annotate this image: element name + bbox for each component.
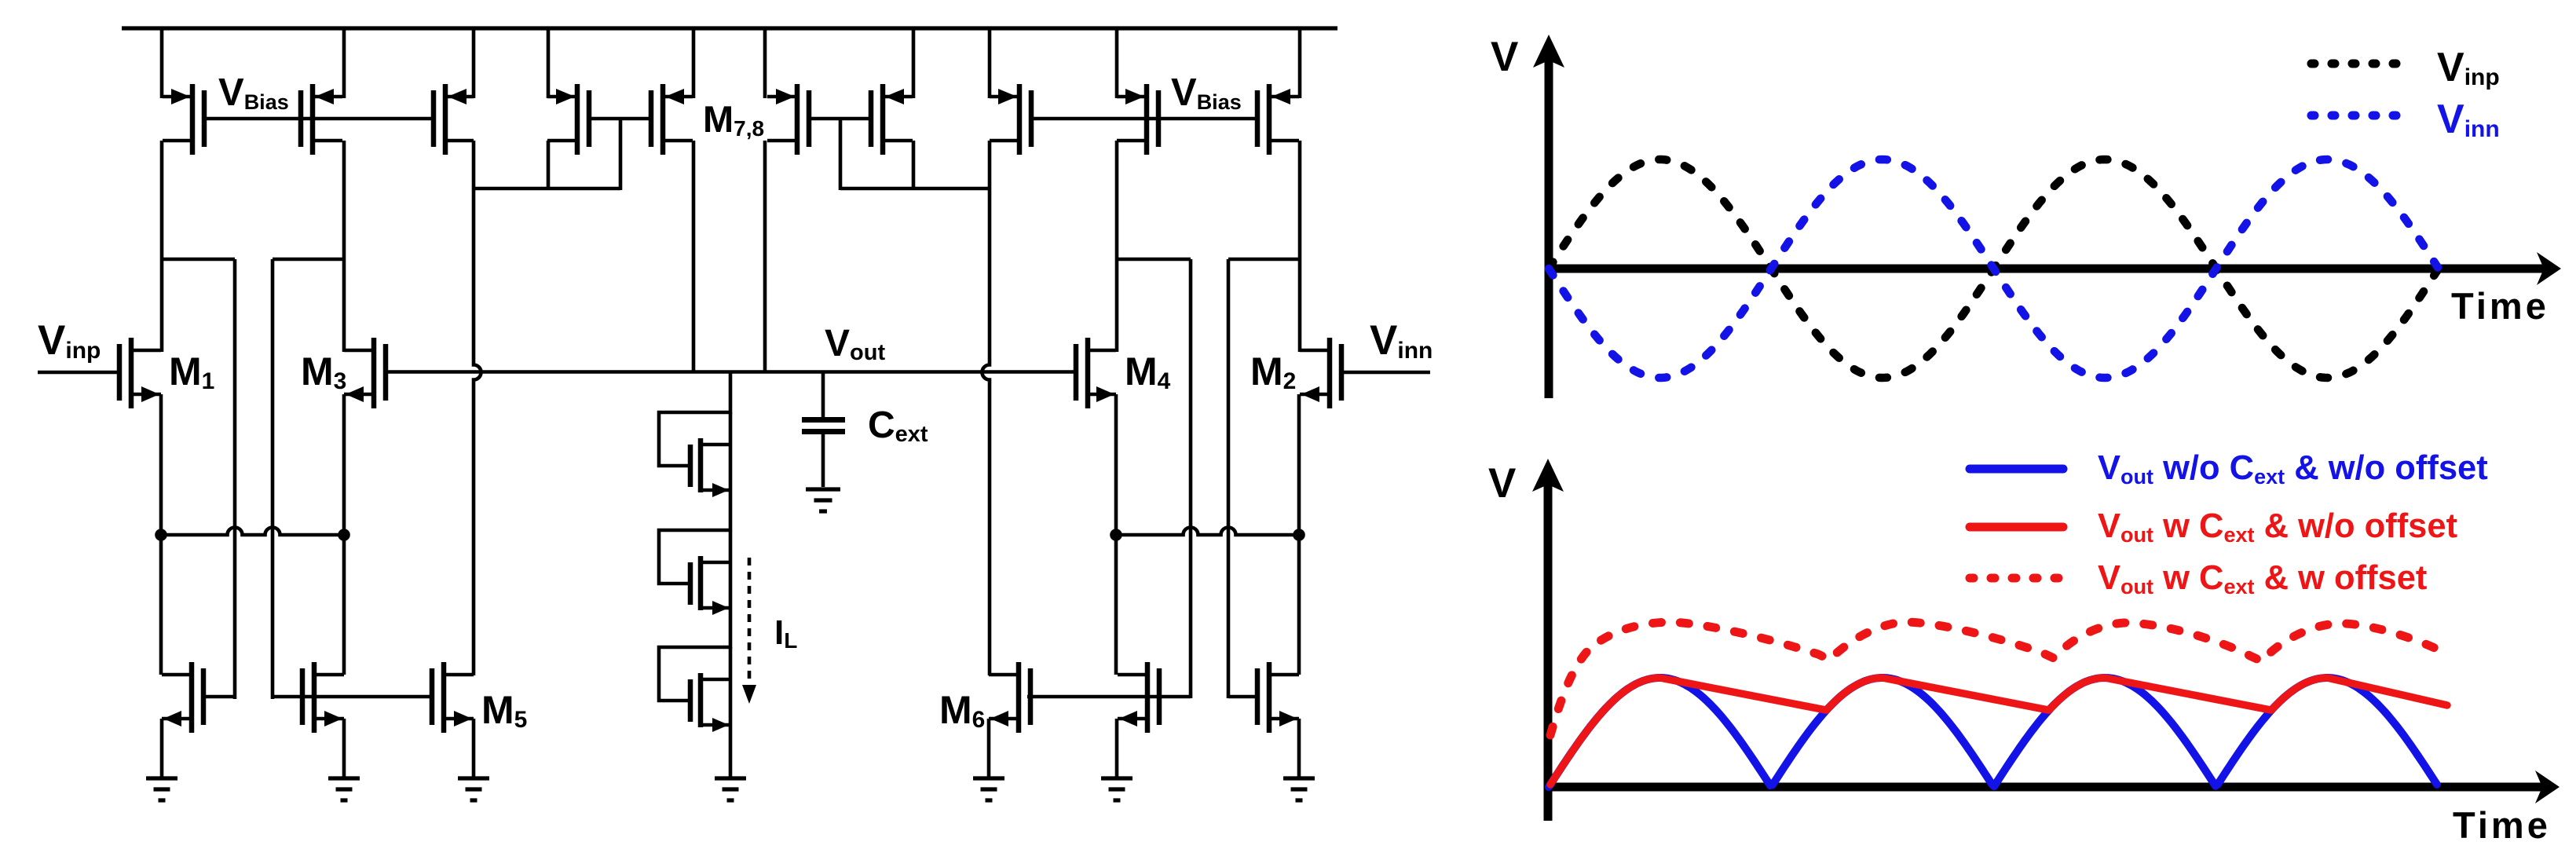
ground under M5 — [458, 778, 489, 800]
curve Vout w Cext red solid — [1550, 678, 2447, 785]
svg-text:Time: Time — [2453, 804, 2551, 846]
wire M3-source node down to B drain — [342, 535, 346, 675]
wire stack link 1 — [729, 412, 733, 531]
bottom plot V axis — [1532, 459, 1564, 821]
wire C gate riser — [1189, 259, 1193, 698]
transistor Q-bias-R1 (VBias pair left) — [1117, 84, 1158, 155]
transistor M8 mirror right — [871, 84, 913, 155]
wire M4 source down — [1114, 394, 1118, 535]
wire Q-bias-L1 source to rail — [160, 28, 164, 98]
legend sample red solid — [1970, 523, 2063, 532]
wire right source cross link — [1116, 528, 1299, 536]
wire M8 mirror-left drain to Vout — [763, 141, 767, 373]
wire M7 gate-drain tie — [619, 119, 623, 190]
wire M8 mirror-right source to rail — [912, 28, 916, 98]
wire Vout to Cext — [821, 371, 825, 417]
transistor D (NMOS under M2) — [1257, 662, 1299, 733]
ground under A — [146, 778, 177, 800]
wire M4-source node down to C drain — [1114, 535, 1118, 675]
wire node M1-drain branch to A gate — [162, 258, 235, 262]
wire M7 drain node bar — [474, 187, 620, 191]
wire M5 source to ground — [472, 719, 476, 778]
wire Q-bias-L2 drain to M3 drain — [342, 141, 346, 352]
transistor load stack Q-L1 — [659, 412, 730, 497]
transistor M1 — [119, 338, 161, 408]
wire M6-C gate line — [1027, 695, 1191, 699]
legend sample red dashed — [1970, 574, 2063, 583]
top plot Time axis — [1549, 252, 2561, 285]
wire Q-bias-R2 drain to M2 drain — [1298, 141, 1302, 352]
wire M8 gate-drain tie — [839, 119, 843, 190]
transistor load stack Q-L2 — [659, 530, 730, 615]
wire M8 mirror-right drain down — [912, 141, 916, 190]
transistor B (NMOS under M3) — [302, 662, 344, 733]
wire stack to ground — [729, 647, 733, 778]
legend sample Vinp dashes — [2311, 60, 2399, 68]
wire node M4-drain branch to C gate — [1117, 258, 1191, 262]
wire VBias gate line right — [1031, 117, 1257, 121]
wire B-M5 gate line — [273, 695, 432, 699]
wire M1-source node down to A drain — [159, 535, 163, 675]
transistor M7 mirror left — [547, 84, 589, 155]
node M2 source junction — [1293, 529, 1305, 541]
wire M7 mirror-right source to rail — [692, 28, 696, 98]
svg-text:V: V — [1488, 460, 1516, 507]
wire M3 source down — [342, 394, 346, 535]
capacitor Cext — [802, 420, 845, 488]
current IL dashed arrow — [742, 558, 756, 704]
wire D source to ground — [1297, 719, 1301, 778]
wire B source to ground — [342, 719, 346, 778]
wire Q-bias-L2 source to rail — [342, 28, 346, 98]
svg-text:Vout w/o Cext & w/o offset: Vout w/o Cext & w/o offset — [2098, 449, 2488, 489]
wire Vout to load stack — [729, 371, 733, 414]
wire Q-bias-R2 source to rail — [1298, 28, 1302, 98]
wire M2 source down — [1297, 394, 1301, 535]
transistor M7 cascode left — [434, 84, 474, 155]
curve Vinn dashed blue sine — [1549, 159, 2438, 378]
transistor M2 — [1300, 338, 1341, 408]
curve Vinp dashed black sine — [1549, 159, 2438, 378]
node M1 source junction — [155, 529, 167, 541]
wire M8-cascode drain down to M6 drain — [982, 141, 990, 675]
transistor Q-bias-R2 (VBias pair right) — [1257, 84, 1299, 155]
wire Vinn input lead — [1341, 371, 1430, 375]
wire M8 pair gate tie — [810, 117, 870, 121]
wire M7 mirror-left source to rail — [547, 28, 551, 98]
curve Vout w Cext w offset red dashed — [1550, 622, 2445, 735]
ground under M6 — [973, 778, 1004, 800]
top plot V axis — [1533, 35, 1564, 398]
wire M7-cascode drain down to M5 drain — [474, 141, 481, 675]
wire D gate riser — [1227, 259, 1231, 698]
transistor M3 — [344, 338, 386, 408]
wire node M3-drain branch to B gate — [273, 258, 344, 262]
wire M7 pair gate tie — [588, 117, 652, 121]
wire Q-bias-R1 source to rail — [1115, 28, 1119, 98]
transistor M8 mirror left — [767, 84, 809, 155]
wire M1 source down — [159, 394, 163, 535]
transistor M4 — [1076, 338, 1116, 408]
transistor C (NMOS under M4) — [1118, 662, 1159, 733]
wire Vout node line — [385, 370, 1077, 374]
wire M7 mirror-right drain to Vout — [692, 141, 696, 373]
transistor M7 mirror right — [651, 84, 693, 155]
wire Q-bias-R1 drain to M4 drain — [1115, 141, 1119, 352]
wire A source to ground — [160, 719, 164, 778]
wire Vinp input lead — [38, 371, 119, 375]
wire M8 mirror-left source to rail — [763, 28, 767, 98]
wire node M2-drain branch to D gate — [1228, 258, 1300, 262]
node M4 source junction — [1110, 529, 1122, 541]
transistor A (NMOS under M1) — [162, 662, 203, 733]
ground under B — [328, 778, 360, 800]
wire stack link 2 — [729, 530, 733, 649]
wire C source to ground — [1115, 719, 1119, 778]
transistor M6 — [989, 662, 1030, 733]
wire B gate riser — [271, 259, 275, 699]
transistor M5 — [432, 662, 474, 733]
VDD top rail wire — [122, 26, 1337, 30]
wire M2-source node down to D drain — [1297, 535, 1301, 675]
transistor Q-bias-L1 (VBias pair left) — [163, 84, 204, 155]
wire VBias gate line left — [203, 117, 434, 121]
wire A gate riser — [233, 259, 237, 699]
wire left source cross link — [161, 528, 344, 536]
ground under D — [1283, 778, 1315, 800]
legend sample blue solid — [1970, 465, 2063, 474]
wire M8 cascode source to rail — [988, 28, 992, 98]
legend sample Vinn dashes — [2311, 112, 2399, 120]
svg-text:V: V — [1491, 34, 1518, 80]
transistor M8 cascode right — [990, 84, 1031, 155]
node M3 source junction — [338, 529, 350, 541]
wire M7 mirror-left drain down — [547, 141, 551, 190]
wire A gate lead — [203, 695, 235, 699]
wire D gate lead — [1228, 695, 1257, 699]
ground under C — [1101, 778, 1132, 800]
ground under Cext — [806, 489, 840, 511]
wire M7 cascode source to rail — [472, 28, 476, 98]
wire M8 drain node bar — [840, 187, 990, 191]
svg-text:Time: Time — [2451, 285, 2549, 327]
transistor Q-bias-L2 (VBias pair right) — [301, 84, 342, 155]
curve Vout w/o Cext blue rectified humps — [1549, 678, 2437, 787]
transistor load stack Q-L3 — [659, 647, 730, 732]
wire M6 source to ground — [987, 719, 991, 778]
bottom plot Time axis — [1548, 770, 2560, 803]
wire Q-bias-L1 drain to M1 drain — [160, 141, 164, 352]
ground under load stack — [715, 778, 746, 800]
